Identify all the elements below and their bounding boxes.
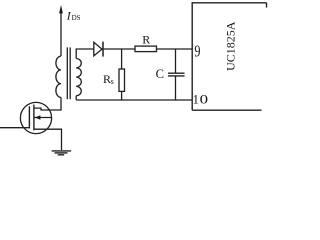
transistor Q1 MOSFET circle <box>20 102 51 133</box>
IC U1 UC1825A <box>192 3 267 110</box>
wire R to pin 9 <box>157 48 193 50</box>
label Rs <box>103 72 114 86</box>
pin 10 <box>193 93 208 107</box>
svg-text:UC1825A: UC1825A <box>224 21 238 71</box>
bottom rail wire to pin 10 <box>76 99 192 101</box>
resistor Rs <box>119 69 125 91</box>
wire junction to C <box>175 49 177 73</box>
current arrow IDS <box>59 5 63 56</box>
label UC1825A <box>224 21 238 71</box>
label C <box>156 67 164 81</box>
wire C to rail <box>175 77 177 101</box>
resistor R <box>135 46 157 52</box>
channel bar <box>33 105 35 131</box>
wire primary bottom to drain <box>35 97 62 110</box>
svg-text:R: R <box>142 33 150 47</box>
svg-text:C: C <box>156 67 164 81</box>
transformer T1 primary winding <box>56 56 61 97</box>
body arrow <box>35 115 52 119</box>
svg-text:1: 1 <box>193 93 199 107</box>
pin 9 <box>194 43 200 61</box>
diode D1 <box>94 42 103 57</box>
wire diode to R <box>104 48 135 50</box>
wire secondary top to diode <box>76 49 94 59</box>
label IDS <box>66 9 81 23</box>
ground <box>52 151 72 155</box>
wire Rs to rail <box>121 91 123 100</box>
wire secondary bottom to rail <box>75 96 77 100</box>
transformer T1 secondary winding <box>76 59 81 96</box>
source wire to ground <box>35 129 62 150</box>
label R <box>142 33 150 47</box>
svg-text:s: s <box>111 77 114 86</box>
capacitor C <box>168 73 185 76</box>
svg-text:0: 0 <box>200 94 208 107</box>
gate bar <box>28 106 30 128</box>
wire junction to Rs <box>121 49 123 69</box>
transformer core <box>67 47 70 99</box>
gate wire <box>0 127 30 129</box>
svg-text:DS: DS <box>72 14 81 22</box>
svg-text:9: 9 <box>194 43 200 61</box>
